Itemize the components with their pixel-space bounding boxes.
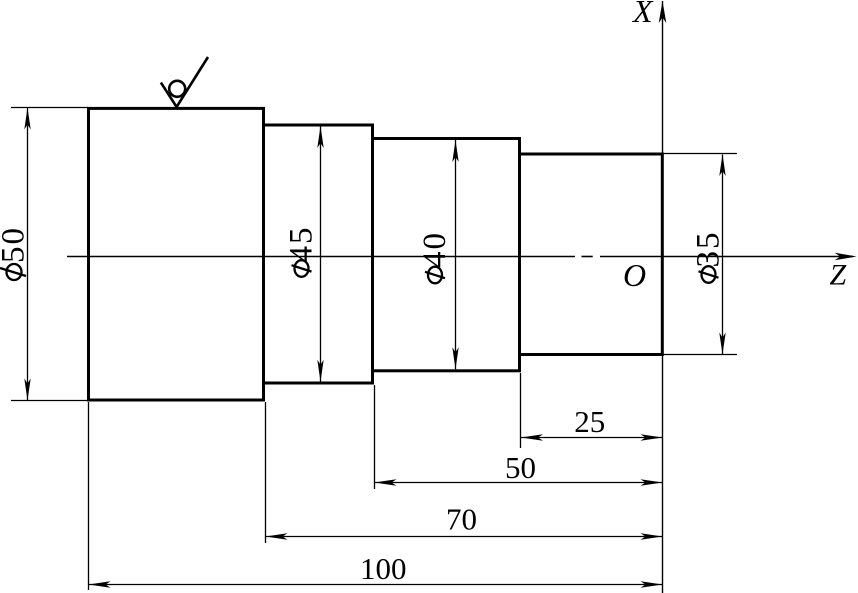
arrowhead dim70 right <box>641 533 663 539</box>
label φ40 <box>417 231 453 283</box>
svg-text:50: 50 <box>505 450 536 485</box>
svg-text:40: 40 <box>417 231 453 268</box>
svg-text:35: 35 <box>691 231 727 268</box>
dimension line φ40 <box>455 140 457 369</box>
arrowhead X axis up <box>659 1 667 23</box>
arrowhead Z axis right <box>835 253 857 261</box>
svg-text:50: 50 <box>0 226 32 263</box>
arrowhead dim70 left <box>266 533 288 539</box>
step φ35 outline <box>520 154 663 355</box>
step φ40 outline <box>373 139 520 371</box>
label φ50 <box>0 226 32 280</box>
arrowhead dim100 right <box>641 581 663 587</box>
dimension line 70 <box>266 536 663 538</box>
svg-text:100: 100 <box>360 551 407 586</box>
label φ35 <box>691 231 727 283</box>
arrowhead dim50 right <box>641 479 663 485</box>
arrowhead φ45 up <box>317 126 323 148</box>
extension line for dim 100 <box>88 402 90 590</box>
arrowhead dim50 left <box>375 479 397 485</box>
extension line for dim 50 <box>374 385 376 489</box>
arrowhead φ40 down <box>452 347 458 369</box>
step φ45 outline <box>264 125 373 383</box>
extension line for dim 70 <box>265 402 267 543</box>
dimension line 50 <box>375 482 663 484</box>
arrowhead φ35 down <box>719 333 725 355</box>
arrowhead φ40 up <box>452 140 458 162</box>
arrowhead dim100 left <box>89 581 111 587</box>
svg-text:O: O <box>623 257 646 293</box>
arrowhead φ35 up <box>719 154 725 176</box>
extension line φ50 bottom <box>11 400 88 402</box>
dimension line 25 <box>521 437 663 439</box>
svg-text:X: X <box>631 0 654 29</box>
label φ45 <box>284 226 320 277</box>
surface roughness symbol <box>161 57 208 107</box>
svg-text:70: 70 <box>446 501 477 536</box>
svg-text:45: 45 <box>284 226 320 263</box>
dimension line φ35 <box>722 155 724 355</box>
arrowhead φ50 down <box>24 379 30 401</box>
step φ50 outline <box>89 108 264 400</box>
arrowhead φ45 down <box>317 360 323 382</box>
extension line φ35 bottom <box>664 354 738 356</box>
arrowhead φ50 up <box>24 108 30 130</box>
centerline / Z axis <box>67 256 853 258</box>
extension line for dim 25 <box>520 373 522 448</box>
X axis <box>662 1 664 593</box>
dimension line φ45 <box>320 126 322 382</box>
arrowhead dim25 left <box>521 434 543 440</box>
extension line φ50 top <box>11 107 88 109</box>
extension line φ35 top <box>664 153 738 155</box>
dimension line 100 <box>89 584 663 586</box>
dimension line φ50 <box>27 108 29 400</box>
svg-text:25: 25 <box>574 404 605 439</box>
arrowhead dim25 right <box>641 434 663 440</box>
svg-text:Z: Z <box>830 259 847 292</box>
